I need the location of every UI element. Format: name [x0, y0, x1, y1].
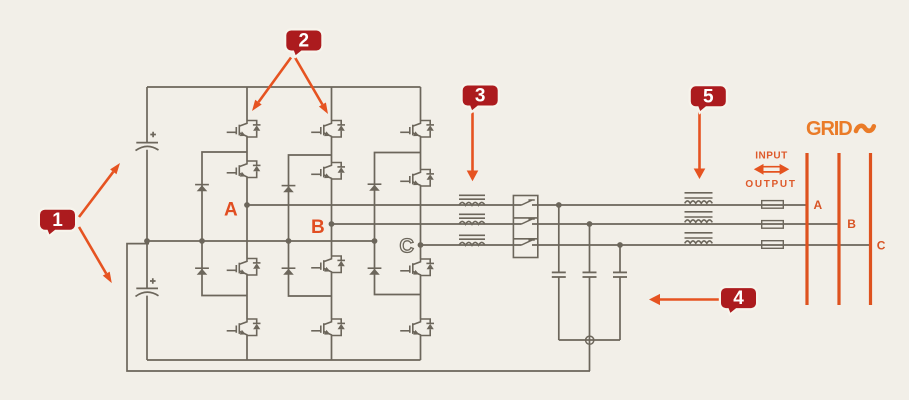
wire filter cap A drop [558, 205, 560, 340]
node A [244, 202, 250, 208]
transistor Q9 [400, 121, 434, 138]
inductor L3 [459, 235, 485, 245]
diode D3 [368, 184, 382, 191]
grid bus line 2 [837, 153, 840, 305]
diode D2 [282, 186, 296, 193]
wire filter star bus [559, 339, 620, 341]
node midpoint-branchA [199, 238, 205, 244]
transistor Q7 [311, 256, 345, 273]
capacitor C3 [552, 272, 566, 277]
node C [418, 242, 424, 248]
wire phase A output [247, 204, 808, 206]
transistor Q3 [227, 259, 261, 276]
svg-text:C: C [400, 236, 414, 258]
transistor Q6 [311, 163, 345, 180]
node filter A [556, 202, 562, 208]
transformer T3 [685, 233, 713, 244]
node filter C [617, 242, 623, 248]
wire filter cap C drop [619, 245, 621, 340]
fuse F2 [762, 221, 784, 229]
capacitor C1 [136, 132, 159, 151]
contactor K1 blade A [522, 200, 535, 205]
inductor L1 [459, 195, 485, 205]
callout badge 2 [285, 29, 322, 57]
input-output double arrow [754, 164, 790, 175]
svg-text:A: A [814, 198, 823, 212]
capacitor C5 [613, 272, 627, 277]
svg-text:1: 1 [52, 210, 63, 231]
callout arrow 1b [79, 227, 112, 283]
junction circle star point [586, 336, 594, 344]
diode D5 [282, 268, 296, 275]
grid tilde symbol [856, 126, 874, 131]
wire leg phase B [331, 87, 333, 360]
svg-text:2: 2 [299, 31, 310, 52]
callout badge 3 [462, 84, 499, 112]
transistor Q10 [400, 170, 434, 187]
callout arrow 4 [649, 294, 721, 305]
wire filter cap B drop [589, 224, 591, 371]
node B [329, 221, 335, 227]
callout badge 1 [39, 209, 76, 237]
capacitor C2 [136, 278, 159, 296]
svg-text:A: A [224, 199, 238, 220]
svg-text:3: 3 [475, 86, 486, 107]
wire clamp branch leg A [202, 152, 247, 296]
callout arrow 5 [694, 111, 706, 179]
transformer T1 [685, 193, 713, 204]
wire clamp branch leg C [375, 153, 421, 295]
transistor Q2 [227, 161, 261, 178]
wire bottom DC- rail [147, 359, 421, 361]
contactor K1 blade C [522, 240, 535, 245]
wire phase C output [421, 244, 871, 246]
wire clamp branch leg B [289, 155, 332, 296]
grid bus line 3 [869, 153, 872, 305]
svg-text:B: B [847, 217, 856, 231]
svg-text:GRID: GRID [806, 118, 852, 140]
contactor K1 box [513, 196, 537, 258]
callout arrow 2b [295, 58, 328, 115]
transformer T2 [685, 212, 713, 223]
svg-text:4: 4 [733, 288, 744, 309]
svg-text:OUTPUT: OUTPUT [745, 179, 796, 190]
callout arrow 1a [79, 163, 120, 217]
diode D1 [195, 185, 209, 192]
node midpoint-branchB [286, 238, 292, 244]
svg-text:C: C [877, 239, 886, 253]
inductor L2 [459, 214, 485, 224]
diode D6 [368, 268, 382, 275]
wire DC-link capacitor column [146, 87, 148, 360]
capacitor C4 [583, 272, 597, 277]
fuse F1 [762, 201, 784, 209]
node filter B [587, 221, 593, 227]
transistor Q1 [227, 121, 261, 138]
transistor Q5 [311, 121, 345, 138]
wire DC midpoint rail [147, 240, 375, 242]
callout arrow 3 [467, 113, 479, 182]
svg-text:INPUT: INPUT [755, 150, 788, 161]
transistor Q11 [400, 259, 434, 276]
node midpoint-cap [144, 238, 150, 244]
svg-text:B: B [311, 217, 325, 238]
fuse F3 [762, 241, 784, 249]
transistor Q4 [227, 319, 261, 336]
wire leg phase A [246, 87, 248, 360]
callout arrow 2a [252, 58, 291, 112]
node midpoint-branchC [372, 238, 378, 244]
diode D4 [195, 268, 209, 275]
wire leg phase C [420, 87, 422, 360]
grid bus line 1 [805, 153, 808, 305]
transistor Q8 [311, 319, 345, 336]
wire neutral return outer loop [127, 244, 590, 371]
wire phase B output [332, 223, 840, 225]
callout badge 5 [690, 85, 727, 113]
contactor K1 blade B [522, 219, 535, 224]
wire top DC+ rail [147, 86, 421, 88]
transistor Q12 [400, 319, 434, 336]
callout badge 4 [720, 287, 757, 315]
svg-text:5: 5 [703, 86, 714, 107]
